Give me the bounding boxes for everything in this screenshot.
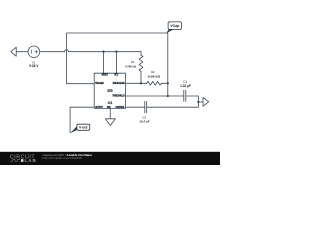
svg-text:TRIGGER: TRIGGER: [95, 83, 104, 85]
svg-text:5.28 V: 5.28 V: [29, 64, 39, 68]
svg-text:9.98 kΩ: 9.98 kΩ: [148, 74, 161, 78]
svg-text:CONTROL: CONTROL: [115, 107, 125, 109]
svg-text:555: 555: [107, 89, 113, 93]
svg-text:OUTPUT: OUTPUT: [95, 107, 103, 109]
svg-text:LAB: LAB: [25, 158, 37, 163]
svg-text:http://circuitlab.com/c64a325: http://circuitlab.com/c64a325: [42, 156, 82, 160]
svg-text:1.32 µF: 1.32 µF: [180, 84, 191, 88]
svg-text:GND: GND: [107, 107, 111, 109]
svg-text:RESET: RESET: [102, 74, 109, 76]
svg-text:10.4 nF: 10.4 nF: [139, 119, 150, 123]
svg-text:THRESHOLD: THRESHOLD: [112, 96, 125, 98]
svg-text:V-out: V-out: [79, 126, 88, 130]
svg-text:VCC: VCC: [114, 74, 118, 76]
svg-text:4.765 kΩ: 4.765 kΩ: [125, 64, 137, 68]
svg-text:VCap: VCap: [170, 24, 180, 28]
svg-text:U1: U1: [108, 101, 113, 105]
